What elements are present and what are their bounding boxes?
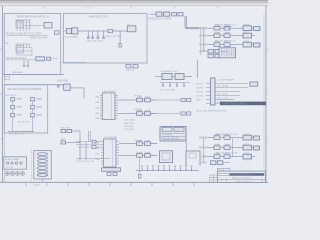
testpoint TP6 [169, 166, 171, 171]
svg-text:OUT2 SCL: OUT2 SCL [124, 123, 135, 125]
DIN connector oval 6 [37, 170, 47, 173]
sheet right border [265, 6, 267, 183]
bus wire right [185, 28, 206, 29]
svg-text:OUTPUT BUS LABELS: OUTPUT BUS LABELS [222, 102, 247, 105]
resistor R27 [67, 130, 72, 133]
regulator out wire [184, 75, 192, 77]
DIN connector oval 5 [37, 167, 47, 170]
extra end box row C [254, 43, 261, 47]
title block vertical divider 1 [221, 179, 223, 182]
left border zone ticks [0, 49, 2, 139]
bottom caps row wire [76, 158, 110, 160]
wire down to page bottom [139, 158, 141, 175]
screw terminal X2 [11, 172, 15, 176]
svg-text:NOTE: ALL RESISTORS 0603: NOTE: ALL RESISTORS 0603 [197, 110, 227, 113]
resistor R20 [11, 98, 15, 101]
screw terminal X1 [6, 172, 10, 176]
IC2 footer mark 2 [113, 173, 117, 176]
title block row line 2 [218, 175, 266, 177]
resistor R26 [61, 130, 66, 133]
decoupling cap C6 [97, 31, 99, 37]
DIN connector outline [34, 151, 52, 180]
series resistor R8 [108, 29, 113, 32]
testpoint TP1 [141, 166, 143, 171]
wire cluster c1 [72, 130, 80, 132]
right rows vertical feed wire [203, 28, 205, 51]
long wire A [3, 74, 65, 76]
bottom long bus wire [136, 170, 199, 172]
wire osc out [65, 30, 67, 32]
IC U11 right pins [116, 142, 119, 164]
DIN connector oval 3 [37, 160, 47, 163]
regulator wires row2 [172, 75, 175, 77]
out stage row 7 [199, 153, 255, 159]
title block vertical divider 2 [225, 179, 227, 182]
mini revision table [210, 175, 218, 182]
svg-text:OUT4 RST: OUT4 RST [124, 129, 135, 131]
svg-text:R1 10k C1 100n R2 75 U1 TOR: R1 10k C1 100n R2 75 U1 TORX [6, 33, 42, 36]
svg-text:VOUT4: VOUT4 [196, 95, 204, 97]
resistor R23 label [37, 98, 43, 100]
capacitor C6 body [97, 37, 100, 38]
wire drop 2 with ground [27, 60, 29, 66]
window top chrome band [0, 0, 268, 1]
electrolytic capacitor C8 [64, 84, 71, 91]
header J2 pin rows [206, 84, 248, 104]
reg caps row [160, 82, 190, 84]
bottom bus wire [8, 131, 34, 133]
opto stage row 4 [199, 50, 207, 52]
resistor R21 label [17, 106, 23, 108]
svg-text:MASTER CLOCK: MASTER CLOCK [89, 15, 108, 18]
wire drop 1 with ground [23, 60, 25, 66]
dashed separator [31, 149, 33, 181]
terminating resistor R5 [119, 44, 121, 48]
wire row 2 [6, 59, 36, 61]
svg-text:J2 OUT HEADER: J2 OUT HEADER [218, 79, 235, 82]
reg cap c10 [162, 83, 164, 87]
wire row 1 [6, 34, 48, 36]
rows feed wire [203, 138, 205, 162]
out stage row 5 [199, 134, 255, 140]
row 8 box 1 [211, 161, 217, 165]
svg-text:OUT1 SDA: OUT1 SDA [124, 119, 135, 122]
optical receiver U1 body [44, 23, 52, 29]
testpoint TP9 [185, 166, 187, 171]
driver DD end wire [119, 154, 133, 156]
svg-text:OUT3 INT: OUT3 INT [124, 126, 134, 128]
vertical wire to U11 b [85, 143, 87, 161]
transformer inner box 1 [162, 127, 172, 131]
SPDIF receiver output box [55, 31, 60, 34]
svg-text:1 of 4: 1 of 4 [33, 183, 40, 187]
svg-text:VOUT2: VOUT2 [196, 87, 204, 89]
end resistor R42 [250, 82, 258, 86]
testpoint TP8 [180, 166, 182, 171]
transformer row wires [161, 134, 185, 140]
title block outer [218, 171, 266, 182]
relay K1 outline [186, 151, 200, 166]
IC2 footer mark 1 [107, 173, 111, 176]
IC U8 left pins [100, 95, 103, 118]
capacitor C7 body [102, 37, 105, 38]
divider col B wire [32, 97, 34, 132]
ground GND2 [27, 66, 30, 68]
svg-text:SPDIF_IN1 GND: SPDIF_IN1 GND [30, 37, 48, 39]
svg-text:SW1 R27: SW1 R27 [61, 128, 71, 130]
svg-text:SPDIF INPUT AND OPTO 1/2: SPDIF INPUT AND OPTO 1/2 [17, 16, 49, 19]
svg-text:C30 C31: C30 C31 [126, 70, 135, 72]
reg cap c13 [183, 83, 185, 87]
sheet bottom border [0, 181, 268, 183]
bottom cluster grid box 1 [208, 49, 214, 53]
svg-text:Audio Control Board: Audio Control Board [232, 177, 252, 180]
svg-text:100n 100n 100n: 100n 100n 100n [87, 41, 104, 43]
power wire down [83, 88, 85, 98]
driver stage DC [133, 140, 155, 145]
title block vertical divider 3 [261, 179, 263, 182]
revision cell above title block [218, 168, 230, 171]
clock branch wire down [119, 31, 121, 44]
svg-text:OUT_C R42: OUT_C R42 [217, 98, 229, 100]
IC U8 right pins [115, 95, 118, 118]
resistor R22 label [17, 114, 23, 116]
svg-text:R50 220 R51 220 U15: R50 220 R51 220 U15 [216, 134, 239, 136]
box B inner bottom line [61, 61, 86, 63]
power wire right [70, 87, 84, 89]
svg-text:MCLK 24.576M: MCLK 24.576M [106, 36, 121, 38]
driver module box [160, 151, 173, 163]
svg-text:KEY1 KEY2: KEY1 KEY2 [5, 95, 17, 97]
regulator wires row1 [155, 75, 162, 77]
out stage row 6 [199, 144, 255, 150]
bottom cluster grid box 4 [215, 54, 221, 58]
vertical bus pair [89, 131, 91, 142]
resistor network RN1 grid [16, 44, 33, 55]
svg-text:THE SCHEMATIC PCB: THE SCHEMATIC PCB [231, 173, 251, 176]
output filter pair row2 [158, 113, 182, 115]
small cap C9 [57, 86, 60, 87]
oscillator U2 [72, 28, 78, 34]
testpoint TP4 [158, 166, 160, 171]
testpoint TP2 [147, 166, 149, 171]
resistor R7 [178, 13, 183, 16]
small symbol below [139, 175, 142, 179]
out stage row 8 [199, 162, 207, 164]
driver DA end wire [118, 99, 133, 101]
capacitor C4 body [87, 37, 90, 38]
sheet left border [2, 6, 4, 183]
extra end box row 5 [254, 136, 260, 140]
input jack J1 body [16, 21, 23, 28]
bus wire down double [185, 16, 186, 28]
svg-text:GND AGND: GND AGND [12, 71, 24, 74]
gate U4 [156, 12, 162, 16]
top zone ticks [44, 6, 218, 8]
wire clock bus [78, 30, 127, 32]
capacitor C5 body [91, 37, 94, 38]
svg-text:VOUT1: VOUT1 [196, 83, 204, 85]
input resistor Rb [92, 146, 96, 149]
bottom cluster grid box 3 [208, 54, 214, 58]
wire from jack to receiver [23, 25, 44, 27]
svg-text:1 2 3 4 5: 1 2 3 4 5 [6, 167, 15, 169]
IC2 left wire row 1 [76, 141, 101, 143]
resistor R20 label [17, 98, 23, 100]
testpoint TP7 [174, 166, 176, 171]
svg-text:GND: GND [196, 99, 201, 101]
DIN bottom wire [42, 179, 44, 182]
title block row line 1 [218, 172, 266, 174]
driver stage DD [133, 152, 155, 157]
resistor R23 [31, 98, 35, 101]
DIN connector oval 7 [37, 174, 47, 177]
jack block J4 [219, 48, 236, 58]
decoupling cap C5 [92, 31, 94, 37]
IC U11 left pins [101, 142, 104, 164]
testpoint TP3 [152, 166, 154, 171]
screw terminal X4 [21, 172, 25, 176]
driver stage DA [133, 96, 155, 101]
svg-text:OUT_B R41: OUT_B R41 [217, 94, 229, 96]
opto stage row 3 [199, 41, 255, 47]
transformer inner box 2 [174, 127, 184, 131]
svg-text:DATA_IN SCLK LRCK: DATA_IN SCLK LRCK [149, 17, 172, 20]
net flag label box [5, 76, 10, 80]
svg-text:+3V3 GND: +3V3 GND [57, 81, 69, 83]
driver stage DB [133, 110, 155, 115]
inline boxes row A [225, 27, 229, 30]
ferrite bead FB1 [36, 57, 45, 61]
feed wire from top [196, 60, 198, 78]
wire cluster c2 [66, 142, 80, 144]
IC U8 body [102, 93, 115, 120]
opto stage row 2 [199, 32, 255, 38]
svg-text:R10 220 R11 220 U6: R10 220 R11 220 U6 [215, 24, 236, 26]
title header dark band [230, 173, 265, 175]
relay K1 inner mark [189, 153, 196, 158]
svg-text:+5V +3V3 GND: +5V +3V3 GND [160, 90, 176, 92]
resistor R24 label [37, 106, 43, 108]
divider col A wire [12, 97, 14, 132]
mounting block MH [102, 168, 121, 171]
svg-text:J1A: J1A [5, 42, 9, 45]
bottom cluster wire [221, 50, 229, 52]
svg-text:U11 OPA1632: U11 OPA1632 [104, 136, 118, 139]
vertical line right of transformer [185, 126, 187, 152]
svg-text:U10 R31: U10 R31 [134, 109, 143, 111]
svg-text:OUT_A R40: OUT_A R40 [217, 85, 229, 88]
bottom cluster grid box 2 [215, 49, 221, 53]
section box B outline [63, 14, 147, 64]
driver module inner mark [162, 153, 170, 160]
IC2 left wire row 2 [76, 143, 101, 145]
connector J1 pin labels [16, 23, 31, 29]
long wire B [4, 84, 63, 86]
extra end box row 6 [254, 146, 260, 150]
svg-text:U9 R30: U9 R30 [134, 96, 142, 98]
svg-text:R52 220 R53 220 U16: R52 220 R53 220 U16 [216, 152, 239, 154]
sheet left inner border [3, 14, 5, 183]
aux cluster boxes [126, 65, 131, 69]
dark net bar [220, 102, 266, 106]
svg-text:VOUT3: VOUT3 [196, 91, 204, 93]
regulator U13 body [162, 73, 172, 79]
row 8 wire [223, 162, 230, 164]
resistor R21 [11, 106, 15, 109]
driver DB end wire [118, 113, 133, 115]
svg-text:U8 PCM1792: U8 PCM1792 [103, 91, 116, 93]
reg cap c11 [169, 83, 171, 87]
sheet right inner border [263, 14, 265, 183]
svg-text:10k 4k7 2k2: 10k 4k7 2k2 [18, 122, 31, 124]
svg-text:KEY_ADC GND: KEY_ADC GND [9, 132, 25, 135]
connector J1 pins comb [16, 20, 32, 31]
svg-text:C20 C21 C22 C23: C20 C21 C22 C23 [76, 161, 95, 163]
regulator U14 body [175, 73, 184, 79]
svg-text:KEY ADC VOLTAGE DIVIDERS: KEY ADC VOLTAGE DIVIDERS [8, 88, 42, 91]
reg cap c12 [176, 83, 178, 87]
right border zone ticks [266, 49, 268, 139]
svg-text:J3 KEY PANEL: J3 KEY PANEL [5, 158, 20, 161]
IC U11 body [104, 139, 116, 167]
bottom zone ticks [26, 183, 194, 186]
screw terminal X3 [16, 172, 20, 176]
transformer mid boxes [163, 137, 169, 139]
decoupling cap C7 [103, 31, 105, 37]
ground GND1 [23, 66, 26, 68]
wire to box edge [51, 58, 58, 60]
keypad connector box [4, 157, 27, 169]
svg-text:U13 AMS1117-3.3: U13 AMS1117-3.3 [160, 70, 178, 73]
DIN connector oval 2 [37, 156, 47, 159]
testpoint TP5 [163, 166, 165, 171]
page background [0, 0, 268, 188]
svg-text:Sheet 1 of 4 Rev 1.0: Sheet 1 of 4 Rev 1.0 [236, 180, 253, 183]
decoupling cap C4 [87, 31, 89, 37]
title block row line 3 [218, 178, 266, 180]
testpoint TP10 [191, 166, 193, 171]
svg-text:SW2: SW2 [61, 139, 67, 141]
resistor R28 [61, 141, 66, 144]
crystal Y1 [67, 29, 72, 34]
resistor R24 [31, 106, 35, 109]
resistor R6 [172, 13, 177, 16]
resistor R25 [31, 114, 35, 117]
IC2 left wire row 3 [78, 146, 101, 148]
output filter pair row1 [158, 99, 182, 101]
DIN connector oval 4 [37, 163, 47, 166]
svg-text:T1 PULSE: T1 PULSE [162, 134, 172, 136]
input resistor Ra [92, 140, 96, 143]
resistor R22 [11, 114, 15, 117]
opto stage row 1 [199, 24, 255, 30]
svg-text:Y1 24.576MHz: Y1 24.576MHz [64, 37, 78, 39]
row 8 box 2 [218, 161, 224, 165]
transformer block body [160, 127, 186, 142]
resistor R25 label [37, 114, 43, 116]
DIN connector oval 1 [37, 153, 47, 156]
svg-text:R12 220 R13 220 U7: R12 220 R13 220 U7 [215, 40, 236, 42]
section box C outline [4, 85, 47, 133]
vertical wire to U11 [79, 131, 81, 160]
buffer U3 [127, 26, 136, 32]
vertical bus linking rows [231, 138, 233, 157]
header J2 body [211, 78, 216, 105]
driver DC end wire [119, 143, 133, 145]
row group1 small texts [254, 27, 261, 31]
gate U5 [164, 12, 170, 16]
keypad pin circles row1 [6, 162, 22, 164]
wire joining gates [150, 13, 156, 15]
logo watermark circle [241, 162, 250, 171]
section box A outline [4, 14, 60, 75]
capacitor C3 [47, 57, 51, 60]
svg-text:U12 R32: U12 R32 [134, 140, 143, 142]
